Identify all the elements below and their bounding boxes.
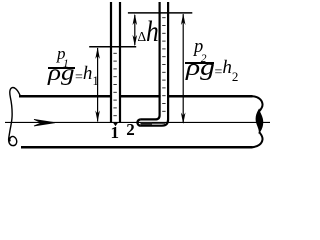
tube 1 water level line bbox=[89, 46, 136, 48]
pipe bottom wall bbox=[21, 146, 253, 149]
pipe break right bbox=[252, 96, 263, 111]
label p1/rho-g = h1 bbox=[57, 45, 69, 63]
piezometer tube 1 walls bbox=[111, 2, 120, 123]
tube 1 liquid ticks bbox=[113, 53, 116, 115]
pipe centerline bbox=[5, 121, 270, 123]
dimension h1 bbox=[95, 47, 100, 122]
tube 2 liquid ticks bbox=[141, 18, 166, 124]
flow arrow bbox=[34, 119, 55, 126]
tube 1 mouth marker bbox=[113, 123, 118, 126]
node 2 label bbox=[126, 121, 135, 138]
pitot tube 2 bbox=[137, 2, 168, 126]
label delta h bbox=[138, 17, 162, 47]
tube 2 water level line bbox=[128, 12, 192, 14]
dimension delta h bbox=[133, 14, 138, 47]
label p2/rho-g = h2 bbox=[194, 38, 207, 57]
pipe break left bbox=[9, 88, 21, 146]
dimension h2 bbox=[181, 14, 186, 125]
node 1 label bbox=[111, 124, 120, 141]
pipe top wall bbox=[19, 95, 253, 98]
